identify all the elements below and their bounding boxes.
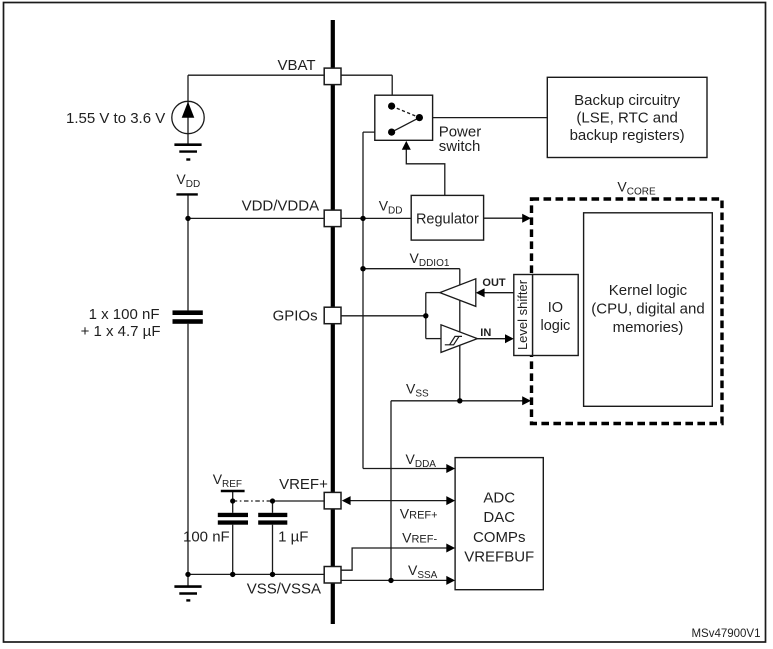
svg-text:VDD: VDD — [379, 197, 403, 216]
svg-text:VREF+: VREF+ — [279, 476, 328, 493]
svg-text:VREFBUF: VREFBUF — [464, 549, 534, 566]
svg-text:Regulator: Regulator — [416, 211, 479, 227]
svg-text:100 nF: 100 nF — [183, 529, 230, 546]
svg-text:VREF: VREF — [213, 471, 242, 490]
svg-text:VREF+: VREF+ — [400, 505, 438, 521]
svg-text:COMPs: COMPs — [473, 529, 526, 546]
svg-text:ADC: ADC — [483, 490, 515, 507]
svg-text:VBAT: VBAT — [278, 57, 316, 74]
svg-text:1 µF: 1 µF — [278, 529, 308, 546]
svg-text:VDDIO1: VDDIO1 — [410, 250, 450, 269]
svg-text:1 x 100 nF: 1 x 100 nF — [89, 306, 160, 323]
svg-text:VREF-: VREF- — [402, 530, 437, 546]
svg-text:VDD: VDD — [176, 171, 200, 190]
svg-text:OUT: OUT — [482, 277, 506, 289]
svg-text:Backup circuitry: Backup circuitry — [574, 92, 680, 109]
svg-text:MSv47900V1: MSv47900V1 — [691, 628, 760, 640]
svg-text:VCORE: VCORE — [617, 178, 656, 197]
svg-text:DAC: DAC — [483, 509, 515, 526]
svg-text:VSS/VSSA: VSS/VSSA — [247, 581, 321, 598]
svg-text:logic: logic — [540, 318, 570, 334]
svg-text:(LSE, RTC and: (LSE, RTC and — [576, 109, 677, 126]
svg-text:VSSA: VSSA — [408, 562, 438, 581]
svg-text:VDDA: VDDA — [406, 451, 437, 470]
svg-text:IO: IO — [548, 300, 563, 316]
svg-text:Level shifter: Level shifter — [515, 279, 530, 350]
svg-text:+ 1 x 4.7 µF: + 1 x 4.7 µF — [81, 323, 161, 340]
svg-text:VDD/VDDA: VDD/VDDA — [242, 198, 320, 215]
svg-text:switch: switch — [439, 138, 481, 155]
svg-text:IN: IN — [480, 327, 491, 339]
svg-text:(CPU, digital and: (CPU, digital and — [591, 301, 704, 318]
svg-text:backup registers): backup registers) — [570, 127, 685, 144]
svg-text:VSS: VSS — [406, 380, 429, 399]
svg-text:GPIOs: GPIOs — [273, 308, 318, 325]
svg-text:Kernel logic: Kernel logic — [609, 282, 688, 299]
svg-text:1.55 V to 3.6 V: 1.55 V to 3.6 V — [66, 110, 165, 127]
svg-text:memories): memories) — [613, 319, 684, 336]
